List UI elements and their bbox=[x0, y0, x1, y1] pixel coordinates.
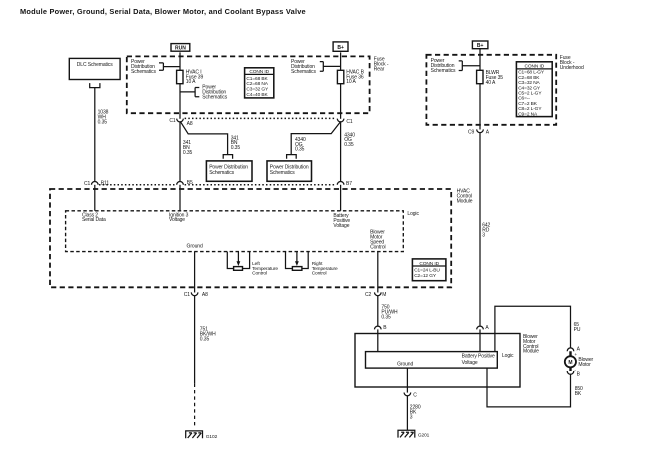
goes-to staple (right power distribution) bbox=[287, 155, 297, 159]
power distribution schematics pointer (below fuse HVAC I) bbox=[180, 85, 228, 101]
svg-text:C: C bbox=[413, 392, 417, 398]
svg-text:C1: C1 bbox=[169, 118, 176, 124]
svg-text:Schematics: Schematics bbox=[202, 94, 227, 100]
wire ground from inner box to connector C bbox=[406, 368, 408, 392]
svg-text:Control: Control bbox=[312, 271, 327, 277]
svg-text:Schematics: Schematics bbox=[291, 69, 316, 75]
ignition switch RUN terminal box bbox=[171, 44, 190, 52]
svg-text:Schematics: Schematics bbox=[209, 170, 234, 176]
wire 2280 BK 3 bbox=[406, 396, 408, 431]
wire label 1038 WH 0.35 bbox=[98, 110, 109, 126]
svg-text:Logic: Logic bbox=[407, 211, 419, 217]
svg-text:A8: A8 bbox=[187, 121, 193, 127]
svg-text:Schematics: Schematics bbox=[131, 69, 156, 75]
svg-text:Ground: Ground bbox=[187, 244, 203, 250]
dotted connector line C1 (upper) bbox=[185, 117, 337, 119]
svg-text:M: M bbox=[568, 360, 572, 366]
svg-text:C2=68 BK: C2=68 BK bbox=[518, 75, 540, 81]
wire 751 BK/WH 0.35 bbox=[194, 296, 196, 429]
node Blower Motor Speed Control bbox=[370, 230, 385, 251]
connector staple under DLC box bbox=[90, 83, 100, 88]
goes-to staple (left power distribution) bbox=[223, 155, 232, 159]
HVAC control module dashed enclosure bbox=[50, 189, 451, 287]
logic dashed box (HVAC module) bbox=[66, 211, 420, 252]
svg-text:RUN: RUN bbox=[175, 45, 186, 51]
svg-text:Serial Data: Serial Data bbox=[82, 217, 106, 223]
svg-text:C2=68 NA: C2=68 NA bbox=[246, 81, 268, 87]
wire A pin into inner logic box bbox=[479, 329, 481, 351]
svg-text:M: M bbox=[382, 292, 386, 298]
blower motor control module box bbox=[355, 334, 520, 388]
svg-text:0.35: 0.35 bbox=[381, 314, 391, 320]
svg-text:A8: A8 bbox=[202, 292, 208, 298]
svg-text:B+: B+ bbox=[477, 43, 484, 49]
svg-text:CONN ID: CONN ID bbox=[525, 63, 545, 69]
svg-text:Voltage: Voltage bbox=[169, 217, 185, 223]
wire 850 BK motor return bbox=[487, 368, 571, 407]
svg-text:0.35: 0.35 bbox=[183, 150, 193, 156]
svg-text:0.35: 0.35 bbox=[231, 145, 241, 151]
svg-text:Module: Module bbox=[523, 349, 539, 355]
ground G201 bbox=[398, 430, 430, 438]
svg-text:Ground: Ground bbox=[397, 362, 413, 368]
wire fuse HVAC I down to connector C1 A8 bbox=[179, 84, 181, 119]
connector C9 pin A bbox=[468, 129, 490, 135]
connector C2 pin M bbox=[365, 292, 386, 298]
DLC Schematics reference box bbox=[69, 58, 120, 79]
wire splice branch from right C1 to power distribution bbox=[291, 121, 341, 154]
blower module inner logic box bbox=[366, 352, 515, 369]
svg-text:DLC Schematics: DLC Schematics bbox=[77, 62, 113, 68]
svg-text:C8=2 L-GY: C8=2 L-GY bbox=[518, 106, 542, 112]
wire ground from logic box to C1 A8 bbox=[194, 252, 196, 293]
svg-text:C1=68 L-GY: C1=68 L-GY bbox=[518, 70, 545, 76]
connector C1 pin B11 (HVAC module) bbox=[84, 180, 109, 187]
wire B11 into logic box bbox=[94, 185, 96, 211]
connector pin B7 bbox=[337, 181, 352, 187]
wire label 850 BK bbox=[575, 386, 583, 397]
battery B+ terminal box (fuse block rear) bbox=[333, 42, 348, 51]
svg-text:3: 3 bbox=[482, 233, 485, 239]
svg-text:Schematics: Schematics bbox=[431, 68, 456, 74]
svg-text:Voltage: Voltage bbox=[462, 360, 478, 366]
blower motor control module name label bbox=[523, 334, 539, 354]
svg-text:BK: BK bbox=[575, 391, 582, 397]
connector pin B5 bbox=[177, 180, 193, 186]
svg-text:C1=68 BK: C1=68 BK bbox=[246, 76, 268, 82]
svg-text:C3=32 NA: C3=32 NA bbox=[518, 80, 540, 86]
connector C1 pin A8 (module bottom) bbox=[184, 292, 208, 298]
wire label 341 BN 0.35 (main) bbox=[183, 140, 193, 156]
CONN ID table (HVAC module) bbox=[412, 259, 446, 281]
wire label 341 BN 0.35 (branch) bbox=[231, 135, 241, 151]
power distribution schematics box (right) bbox=[267, 161, 312, 181]
potentiometer Left Temperature Control bbox=[227, 252, 278, 277]
ground G102 bbox=[186, 431, 218, 440]
svg-text:C6=--: C6=-- bbox=[518, 96, 530, 102]
svg-text:C3=32 GY: C3=32 GY bbox=[246, 87, 269, 93]
wire RUN to fuse HVAC I bbox=[179, 52, 181, 70]
HVAC control module name label bbox=[457, 189, 473, 205]
svg-text:3: 3 bbox=[410, 415, 413, 421]
wire blower feed from inner box to motor bbox=[495, 306, 571, 351]
svg-text:Rear: Rear bbox=[374, 66, 385, 72]
node Ignition 3 Voltage bbox=[169, 212, 189, 223]
battery B+ terminal box (fuse block underhood) bbox=[472, 41, 488, 49]
svg-text:C2: C2 bbox=[365, 292, 372, 298]
fuse block rear name label bbox=[374, 57, 389, 73]
wire label 2280 BK 3 bbox=[410, 405, 421, 421]
connector pin B (blower motor control module) bbox=[375, 325, 388, 331]
wire fuse BLWR down to connector C9 bbox=[479, 84, 481, 130]
svg-text:G102: G102 bbox=[206, 434, 218, 440]
svg-text:B7: B7 bbox=[346, 181, 352, 187]
wire B+ underhood to fuse BLWR bbox=[479, 49, 481, 71]
svg-text:C9=2 NA: C9=2 NA bbox=[518, 111, 538, 117]
svg-text:C9: C9 bbox=[468, 129, 475, 135]
fuse block underhood dashed enclosure bbox=[426, 55, 556, 125]
svg-text:C4=32 GY: C4=32 GY bbox=[518, 85, 541, 91]
wire label 65 PU bbox=[574, 322, 581, 333]
power distribution schematics box (left) bbox=[206, 161, 252, 181]
node Ground (blower module) bbox=[397, 362, 413, 368]
connector pin B (blower motor) bbox=[567, 369, 580, 378]
wire label 751 BK/WH 0.35 bbox=[200, 327, 216, 343]
svg-text:0.35: 0.35 bbox=[98, 119, 108, 125]
svg-text:CONN ID: CONN ID bbox=[419, 261, 439, 267]
svg-text:10 A: 10 A bbox=[346, 79, 356, 85]
CONN ID table (fuse block rear) bbox=[245, 68, 274, 98]
connector pin A (blower motor control module) bbox=[477, 325, 490, 331]
wire B+ rear to fuse HVAC B bbox=[340, 52, 342, 70]
wire DLC to connector C1 B11 bbox=[94, 88, 96, 182]
svg-text:Control: Control bbox=[370, 244, 385, 250]
svg-text:C1: C1 bbox=[84, 181, 91, 187]
svg-text:C2=12 GY: C2=12 GY bbox=[414, 273, 437, 279]
svg-text:Battery Positive: Battery Positive bbox=[462, 354, 495, 360]
wire splice branch from C1 A8 to power distribution bbox=[180, 121, 227, 154]
svg-text:B+: B+ bbox=[337, 45, 344, 51]
svg-text:C1: C1 bbox=[184, 292, 191, 298]
power distribution schematics pointer (underhood) bbox=[431, 58, 480, 74]
wire B pin into inner logic box bbox=[377, 329, 379, 351]
connector pin C (blower module ground) bbox=[404, 392, 417, 398]
node Battery Positive Voltage (blower module) bbox=[462, 354, 495, 366]
svg-text:PU: PU bbox=[574, 327, 581, 333]
power distribution schematics pointer (left of RUN wire) bbox=[131, 59, 180, 75]
fuse HVAC I Fuse 39 10 A bbox=[177, 69, 204, 85]
node Battery Positive Voltage bbox=[333, 213, 350, 229]
node Class 2 Serial Data bbox=[82, 212, 106, 223]
svg-text:G201: G201 bbox=[418, 432, 430, 438]
svg-text:Module: Module bbox=[457, 199, 473, 205]
svg-text:C7=2 BK: C7=2 BK bbox=[518, 101, 538, 107]
svg-text:C1=24 L-BU: C1=24 L-BU bbox=[414, 268, 440, 274]
node Ground (logic) bbox=[187, 244, 203, 250]
wire B5 into logic box bbox=[179, 185, 181, 211]
wire label 642 RD 3 bbox=[482, 223, 490, 239]
svg-text:0.35: 0.35 bbox=[295, 147, 305, 153]
connector pin A (blower motor) bbox=[567, 346, 580, 358]
wire label 4340 OG 0.35 (main) bbox=[344, 132, 355, 148]
svg-text:10 A: 10 A bbox=[186, 79, 196, 85]
svg-text:CONN ID: CONN ID bbox=[249, 69, 269, 75]
power distribution schematics pointer (left of B+ rear wire) bbox=[291, 59, 341, 75]
wire 642 RD 3 down to blower motor control module bbox=[479, 133, 481, 327]
blower motor M bbox=[565, 351, 594, 371]
wire right C1 down to B7 bbox=[340, 122, 342, 182]
potentiometer Right Temperature Control bbox=[286, 252, 338, 277]
svg-text:0.35: 0.35 bbox=[200, 337, 210, 343]
svg-text:B5: B5 bbox=[187, 180, 193, 186]
wire label 4340 OG 0.35 (branch) bbox=[295, 137, 306, 153]
svg-text:Schematics: Schematics bbox=[270, 170, 295, 176]
svg-text:Module Power, Ground, Serial D: Module Power, Ground, Serial Data, Blowe… bbox=[20, 7, 306, 16]
svg-text:C1: C1 bbox=[346, 119, 353, 125]
svg-text:C5=2 L-GY: C5=2 L-GY bbox=[518, 91, 542, 97]
wire label 750 PU/WH 0.35 bbox=[381, 305, 398, 321]
svg-text:B11: B11 bbox=[101, 180, 110, 186]
connector C1 pin A8 (HVAC module harness, left) bbox=[169, 118, 192, 127]
fuse HVAC B Fuse 36 10 A bbox=[337, 69, 364, 85]
svg-text:40 A: 40 A bbox=[486, 80, 496, 86]
fuse block rear dashed enclosure bbox=[127, 56, 370, 113]
svg-text:Motor: Motor bbox=[578, 362, 591, 368]
dotted connector line C1 (module top) bbox=[99, 184, 336, 186]
svg-text:Control: Control bbox=[252, 271, 267, 277]
wire B7 into logic box bbox=[340, 185, 342, 211]
fuse block underhood name label bbox=[560, 55, 584, 71]
wire C1 A8 down to B5 bbox=[179, 122, 181, 182]
wire 750 PU/WH 0.35 bbox=[377, 296, 379, 327]
svg-text:C4=40 BK: C4=40 BK bbox=[246, 92, 268, 98]
svg-text:0.35: 0.35 bbox=[344, 142, 354, 148]
CONN ID table (fuse block underhood) bbox=[516, 62, 552, 118]
connector C1 (right side, upper) bbox=[337, 119, 353, 125]
wire fuse HVAC B down to connector C1 bbox=[340, 84, 342, 119]
fuse BLWR Fuse 35 40 A bbox=[477, 70, 504, 86]
svg-text:Logic: Logic bbox=[502, 353, 514, 359]
wire blower speed control from logic box to C2 M bbox=[377, 252, 379, 293]
svg-text:Underhood: Underhood bbox=[560, 65, 584, 71]
svg-text:Voltage: Voltage bbox=[333, 223, 349, 229]
